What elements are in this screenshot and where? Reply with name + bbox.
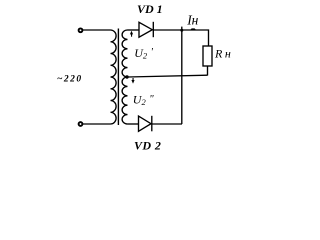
svg-text:Iн: Iн — [186, 12, 198, 27]
svg-text:Rн: Rн — [214, 46, 233, 60]
svg-text:VD 2: VD 2 — [134, 139, 161, 153]
svg-text:~220: ~220 — [57, 74, 83, 84]
svg-text:VD 1: VD 1 — [137, 2, 163, 16]
